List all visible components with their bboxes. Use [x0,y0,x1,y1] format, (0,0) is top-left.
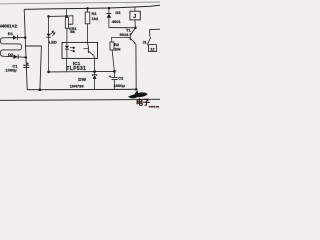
node dot R2 bottom [113,70,116,73]
node dot LED bottom [47,71,50,74]
transistor T1 [130,28,137,90]
node dot D3 top [108,7,111,10]
background [0,0,160,110]
capacitor C1 [23,65,29,67]
node dot D1 cathode [24,36,27,39]
svg-text:N4001×2: N4001×2 [0,23,17,28]
svg-text:J: J [133,14,136,20]
svg-text:www.ea: www.ea [148,105,160,109]
relay contact blade [148,37,151,44]
node dot D2 cathode [25,56,28,59]
plus sign C1 [26,62,28,64]
svg-text:LED: LED [49,39,57,44]
relay coil J [130,7,140,28]
wire led node horizontal [49,15,67,17]
svg-text:D1: D1 [8,31,14,36]
wire opto cathode riser [66,58,68,71]
svg-text:12: 12 [150,46,155,51]
wire top positive rail [24,5,160,9]
node dot LED top [47,15,50,18]
node dot emitter bottom [135,88,138,91]
node dot branch bottom [39,88,42,91]
wire pot feed stub [65,8,67,16]
terminal box 12 [149,45,157,52]
wire pot top stub [66,16,68,18]
svg-text:10k: 10k [114,47,121,52]
svg-text:1k2: 1k2 [92,16,99,21]
plus sign C2 [109,75,111,77]
ink blob logo [128,90,147,98]
opto emission arrows [70,47,75,52]
wire bottom rail [27,88,136,91]
svg-text:1000µ: 1000µ [114,83,126,88]
resistor R1 [85,8,90,42]
node dot zener top [93,70,96,73]
resistor R2 [110,42,114,72]
svg-text:5k: 5k [70,29,75,34]
diode D1 [13,35,25,39]
svg-text:1N4739: 1N4739 [70,83,85,88]
wire mid tap branch to bottom rail [26,46,42,90]
diode D3 [107,8,112,28]
svg-text:DW: DW [78,77,87,82]
svg-text:4001: 4001 [112,19,122,24]
wire pot bottom to opto [66,28,68,42]
svg-text:D3: D3 [115,10,121,15]
wire LED cathode lead [48,38,50,72]
LED indicator [46,34,50,38]
svg-text:TLP531: TLP531 [66,66,86,72]
wiper loop VR1 [67,16,73,25]
generator winding L1 [0,38,21,57]
wire opto emitter riser [94,58,96,71]
contact lower stub [147,44,149,46]
svg-text:1000µ: 1000µ [5,67,17,72]
relay contact J1 wire top [150,29,160,36]
node dot R1 top [86,7,89,10]
wiper arrow head [69,23,71,25]
svg-text:9013: 9013 [120,32,130,37]
LED emission arrows [51,31,55,36]
wire left vertical [24,9,27,89]
node dot pot top [65,15,68,18]
svg-text:D2: D2 [8,52,14,57]
capacitor C2 [111,71,117,89]
opto phototransistor [84,42,95,58]
caption separator line [0,99,160,100]
wire LED anode lead [48,16,50,33]
wire base [112,37,130,42]
wire D3 to collector node [109,27,135,29]
wire emitter node horizontal [49,70,115,73]
potentiometer VR1 body [65,18,68,29]
op-to coupler IC1 box [62,42,98,58]
top border faint line [0,2,160,4]
node dot collector [134,27,137,30]
zener diode DW [92,72,96,90]
diode D2 [14,55,26,59]
svg-text:C2: C2 [118,75,124,80]
opto internal LED [65,42,69,58]
